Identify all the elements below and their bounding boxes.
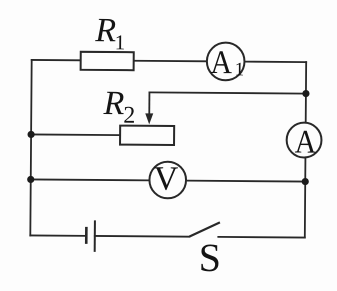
junction node left-R2 — [27, 131, 34, 138]
wire voltmeter to right vertical — [188, 180, 305, 183]
svg-text:A: A — [210, 45, 232, 81]
rheostat wiper arrowhead — [145, 113, 153, 124]
wire switch to bottom-right corner — [218, 236, 304, 239]
resistor R1 — [81, 52, 134, 70]
ammeter A — [287, 123, 322, 158]
ammeter A1 — [207, 43, 245, 81]
svg-text:S: S — [199, 235, 222, 280]
wire A1 to top-right corner — [246, 61, 306, 63]
rheostat R2 — [120, 126, 174, 145]
battery cell negative plate (short) — [85, 227, 88, 244]
svg-text:V: V — [154, 160, 179, 197]
svg-text:2: 2 — [123, 103, 135, 129]
svg-text:A: A — [295, 124, 317, 160]
wire battery to switch — [95, 235, 189, 238]
voltmeter V — [149, 162, 186, 199]
wire rheostat wiper vertical — [148, 92, 150, 114]
wire R1 to A1 — [134, 60, 207, 63]
svg-text:1: 1 — [115, 30, 126, 54]
junction node left-voltmeter — [27, 176, 34, 183]
wire left node to R2 — [31, 133, 120, 136]
battery cell positive plate (long) — [94, 220, 96, 251]
junction node right-wiper — [302, 90, 309, 97]
svg-text:1: 1 — [235, 59, 245, 80]
wire right vertical upper (top corner to ammeter A) — [305, 62, 307, 122]
svg-text:R: R — [94, 12, 116, 49]
wire rheostat wiper horizontal — [149, 92, 305, 93]
wire left vertical — [30, 60, 31, 235]
svg-text:R: R — [102, 85, 124, 122]
wire right vertical lower (ammeter A to bottom corner) — [304, 158, 307, 237]
junction node right-voltmeter — [302, 178, 309, 185]
wire top-left segment — [32, 59, 81, 61]
wire bottom-left to battery — [30, 234, 86, 236]
switch S blade — [189, 222, 220, 237]
wire left node to voltmeter — [31, 178, 149, 181]
